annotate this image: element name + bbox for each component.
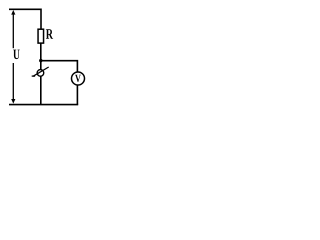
wire: junction to voltmeter branch (right), down to voltmeter — [41, 61, 78, 73]
wire: bottom rail — [9, 104, 78, 106]
voltage arrow U upper arrowhead — [11, 10, 15, 15]
sensor (circle with diagonal non-linearity stroke) — [37, 70, 44, 77]
node: junction dot — [39, 59, 42, 62]
voltage arrow U lower segment — [12, 63, 14, 101]
resistor R — [38, 29, 44, 43]
sensor diagonal foot — [32, 75, 35, 77]
voltmeter V1 circle — [72, 72, 85, 85]
label R — [46, 29, 53, 39]
label U — [13, 50, 20, 60]
label V (voltmeter) — [75, 75, 81, 82]
voltage arrow U upper segment — [12, 13, 14, 49]
wire: sensor bottom to bottom rail — [40, 76, 42, 104]
wire: resistor bottom down to sensor circle — [40, 43, 42, 70]
sensor diagonal stroke — [33, 67, 49, 76]
voltage arrow U lower arrowhead — [11, 99, 15, 104]
wire: top rail from left terminal to top-right corner, down to resistor — [9, 9, 41, 29]
wire: voltmeter bottom down to bottom rail corner — [76, 85, 78, 105]
